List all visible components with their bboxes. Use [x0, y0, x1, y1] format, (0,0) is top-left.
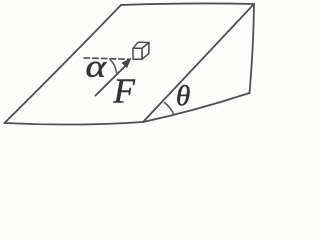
- force arrow F head: [121, 58, 131, 68]
- cube right face: [142, 43, 149, 60]
- angle alpha arc: [110, 60, 117, 73]
- wire incline hypotenuse edge: [143, 4, 254, 122]
- dashed horizontal reference line: [84, 58, 129, 59]
- svg-text:α: α: [86, 48, 108, 84]
- wire right vertical edge: [250, 4, 255, 93]
- physics diagram: block on inclined plane with force F at angle alpha, incline angle theta: [0, 0, 258, 128]
- force arrow F shaft: [96, 63, 129, 96]
- svg-text:F: F: [113, 72, 136, 111]
- wire left slant edge of incline: [5, 5, 122, 123]
- svg-text:θ: θ: [176, 80, 190, 112]
- cube top face: [133, 42, 149, 48]
- wire top back edge: [121, 3, 254, 5]
- cube block on incline: [133, 42, 149, 59]
- cube front face: [133, 48, 142, 59]
- wire bottom front edge: [5, 122, 144, 125]
- wire base edge: [143, 93, 250, 122]
- angle theta arc: [165, 103, 174, 115]
